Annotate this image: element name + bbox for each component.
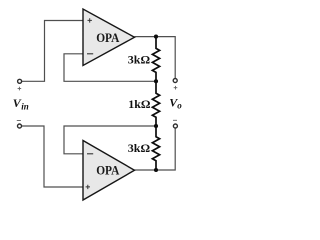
- wire: bottom feedback from U2 - input to node C: [64, 126, 156, 154]
- svg-text:OPA: OPA: [96, 163, 120, 178]
- U2 plus input sign: [86, 185, 90, 189]
- op-amp U1 (top): [83, 9, 135, 66]
- terminal Vo+ (top right open circle): [173, 79, 177, 83]
- U1 plus input sign: [88, 18, 92, 22]
- terminal Vin- (bottom left open circle): [18, 124, 22, 128]
- wire: top feedback from U1 - input to node B: [64, 54, 156, 82]
- node C junction dot: [154, 124, 158, 128]
- resistor R2 1k ohm: [152, 81, 159, 126]
- wire: U2 output to right rail up to -Vo terminal: [135, 128, 176, 170]
- svg-text:3kΩ: 3kΩ: [128, 141, 151, 155]
- U1 minus input sign: [87, 53, 93, 55]
- svg-text:3kΩ: 3kΩ: [128, 53, 151, 67]
- node D junction dot: [154, 168, 158, 172]
- plus sign below Vo+ terminal: [174, 86, 178, 90]
- op-amp U2 (bottom): [83, 141, 135, 201]
- wire: top input from terminal up to U1 + input: [22, 21, 83, 82]
- svg-text:OPA: OPA: [96, 30, 120, 45]
- node A junction dot: [154, 35, 158, 39]
- svg-text:1kΩ: 1kΩ: [128, 97, 151, 111]
- U2 minus input sign: [87, 153, 93, 155]
- wire: bottom input from terminal down to U2 + input: [22, 126, 83, 187]
- minus sign above Vin- terminal: [17, 120, 21, 122]
- plus sign below Vin+ terminal: [18, 87, 22, 91]
- terminal Vin+ (top left open circle): [18, 79, 22, 83]
- resistor R1 3k ohm: [152, 37, 159, 82]
- node B junction dot: [154, 79, 158, 83]
- minus sign above Vo- terminal: [173, 119, 177, 121]
- resistor R3 3k ohm: [152, 126, 159, 170]
- terminal Vo- (bottom right open circle): [173, 124, 177, 128]
- wire: U1 output to right rail down to +Vo terminal: [135, 37, 176, 79]
